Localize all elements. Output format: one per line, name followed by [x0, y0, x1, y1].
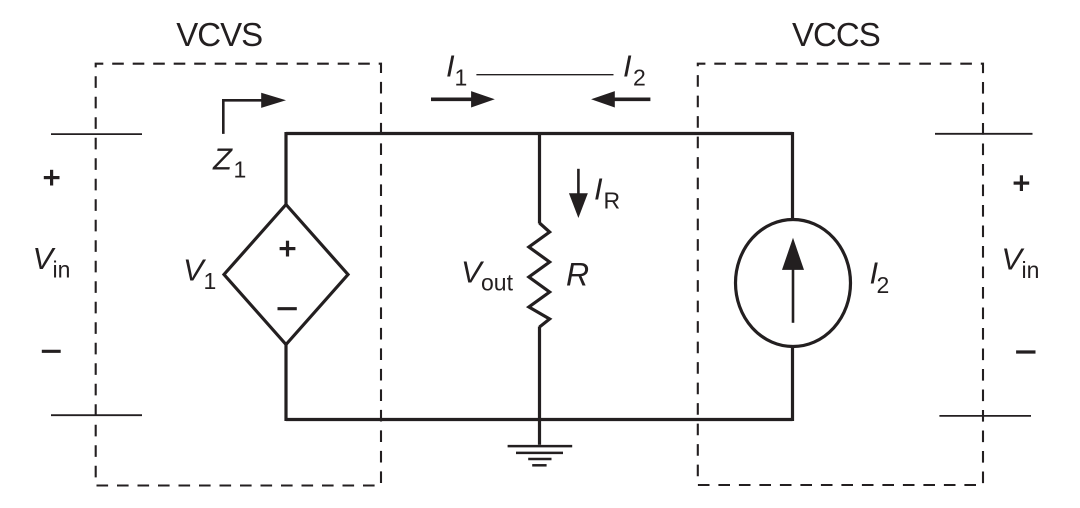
current arrow I1 (pointing right) [431, 91, 495, 107]
svg-text:1: 1 [455, 65, 468, 91]
current arrow I2 (pointing left) [591, 91, 650, 107]
label Z1 [212, 142, 246, 183]
left minus sign [42, 350, 61, 353]
label V1 [183, 253, 216, 294]
svg-text:1: 1 [234, 157, 247, 183]
svg-text:VCVS: VCVS [176, 16, 262, 53]
wire: bottom rail [286, 418, 793, 421]
current source I2 circle [736, 220, 851, 347]
right terminal bottom [939, 415, 1031, 417]
wire: right branch bottom (current source to bottom rail) [791, 346, 794, 421]
svg-text:R: R [566, 256, 589, 292]
plus sign inside V1 [280, 241, 296, 257]
VCCS dashed box [698, 64, 983, 485]
svg-text:I: I [623, 49, 632, 84]
right minus sign [1016, 350, 1035, 353]
current arrow IR [569, 169, 588, 218]
wire: middle branch bottom (resistor to bottom rail) [538, 327, 541, 422]
right plus sign [1014, 175, 1030, 191]
svg-text:in: in [1022, 257, 1040, 283]
VCVS dashed box [96, 64, 381, 486]
wire: left branch top (top rail to V1 diamond) [284, 132, 287, 206]
svg-text:2: 2 [633, 65, 646, 91]
label I2 (current source) [870, 256, 890, 298]
wire: left branch bottom (V1 diamond to bottom rail) [284, 344, 287, 421]
wire: middle branch top (top rail to resistor) [538, 132, 541, 224]
arrow inside current source [782, 238, 804, 323]
wire: right branch top (top rail to current source) [791, 132, 794, 220]
label I1 (top) [446, 49, 467, 91]
right terminal top [935, 133, 1033, 135]
label Vin (right) [1001, 242, 1039, 283]
left terminal top [51, 133, 142, 135]
label Vin (left) [33, 241, 71, 282]
svg-text:VCCS: VCCS [792, 16, 880, 53]
svg-text:I: I [594, 171, 603, 206]
svg-text:Z: Z [212, 142, 233, 177]
svg-text:in: in [53, 256, 71, 282]
svg-text:out: out [481, 270, 514, 296]
svg-text:1: 1 [204, 268, 217, 294]
label Vout [461, 255, 514, 296]
resistor R zigzag [529, 223, 550, 327]
left terminal bottom [51, 414, 142, 416]
minus sign inside V1 [278, 307, 297, 310]
label IR [594, 171, 620, 213]
wire: top rail [286, 132, 793, 135]
svg-text:R: R [604, 187, 621, 213]
left plus sign [44, 170, 60, 186]
svg-text:2: 2 [877, 272, 890, 298]
ground [508, 420, 573, 466]
thin line between I1 and I2 [476, 74, 613, 76]
label I2 (top) [623, 49, 646, 91]
impedance arrow Z1 [223, 93, 286, 134]
dependent source V1 diamond [224, 205, 348, 345]
